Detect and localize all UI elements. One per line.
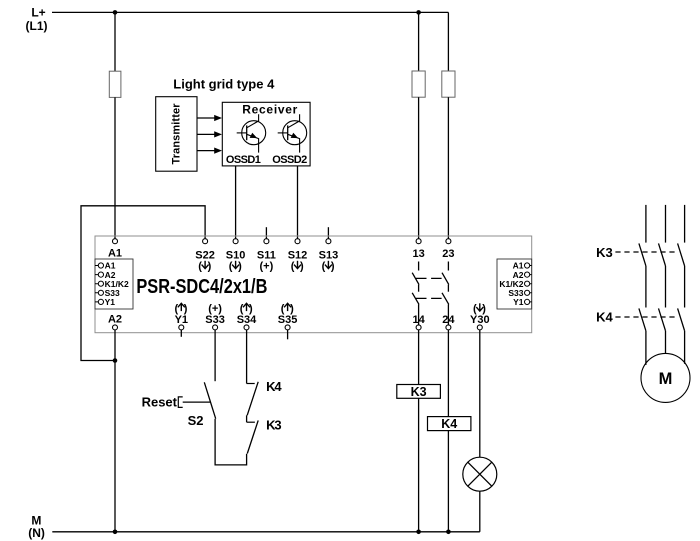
wire phase 1 mid [645, 266, 647, 308]
contact K4 aux blade [247, 382, 258, 416]
wire A1 column upper [114, 12, 116, 71]
wire 13 column lower [418, 97, 420, 239]
transistor Q1 OSSD1 [237, 114, 266, 152]
fuse F1 [109, 71, 121, 97]
node L+ (L1) label [26, 6, 48, 34]
terminal A2 [108, 313, 122, 330]
svg-text:L+: L+ [31, 6, 45, 20]
svg-text:Y1: Y1 [175, 314, 188, 326]
wire stub below S35 [287, 330, 289, 339]
wire OSSD1 output to S10 [235, 166, 237, 239]
svg-text:Transmitter: Transmitter [171, 103, 183, 165]
node junction dot A2/M rail [113, 530, 118, 535]
node junction dot on L+ rail at 13 column [416, 10, 421, 15]
pushbutton S2 actuator link [183, 401, 211, 403]
svg-text:K3: K3 [411, 385, 427, 399]
pushbutton S2 Reset blade [204, 382, 215, 418]
svg-text:A2: A2 [108, 313, 122, 325]
contact K3 aux blade [247, 420, 258, 453]
terminal S35 [278, 303, 298, 330]
svg-text:K4: K4 [266, 379, 282, 394]
wire stub above S13 [327, 227, 329, 239]
svg-text:): ) [331, 260, 335, 272]
wire L+ top rail [52, 11, 448, 13]
terminal 23 [442, 239, 454, 260]
internal safety contact K1/K2 path 23-24 [442, 262, 449, 325]
terminal S22 [195, 239, 215, 273]
fuse F2 [412, 71, 425, 97]
transmitter box [156, 97, 197, 172]
svg-text:): ) [300, 260, 304, 272]
wire phase 3 top [684, 205, 686, 243]
terminal legend box left [95, 259, 133, 309]
svg-text:(: ( [291, 260, 295, 272]
svg-text:Y1: Y1 [105, 297, 116, 307]
terminal S11 [257, 239, 276, 273]
svg-text:Y1: Y1 [513, 297, 524, 307]
wire 24 down to coil K4 [447, 330, 449, 417]
svg-text:): ) [238, 260, 242, 272]
wire phase 3 mid [684, 266, 686, 308]
svg-text:S35: S35 [278, 314, 298, 326]
wire 23 column upper [447, 12, 449, 71]
lamp H1 [463, 457, 497, 491]
svg-text:A1: A1 [108, 248, 122, 260]
mechanical link dashed upper [416, 277, 446, 279]
svg-text:S2: S2 [188, 413, 204, 428]
svg-text:PSR-SDC4/2x1/B: PSR-SDC4/2x1/B [136, 276, 267, 298]
transistor Q2 OSSD2 [278, 114, 307, 152]
svg-text:(: ( [198, 260, 202, 272]
svg-text:(L1): (L1) [26, 19, 48, 33]
svg-text:24: 24 [442, 314, 455, 326]
terminal 14 [412, 314, 425, 330]
wire 13 column upper [418, 12, 420, 71]
svg-text:Y30: Y30 [470, 314, 490, 326]
contact K3 aux tick [247, 421, 255, 423]
pushbutton S2 actuator bracket [178, 397, 182, 408]
wire phase 2 mid [665, 266, 667, 308]
wire 14 down to coil K3 [418, 330, 420, 385]
wire S22 bypass to A2 node [81, 206, 205, 361]
node junction dot bypass/A2 [113, 358, 118, 363]
wire light beam arrow 2 [197, 131, 222, 137]
node junction dot K3/M rail [416, 530, 421, 535]
node M (N) label [28, 514, 45, 541]
coil K4 [428, 417, 471, 432]
svg-text:(N): (N) [28, 526, 45, 540]
svg-text:13: 13 [412, 248, 424, 260]
svg-text:S34: S34 [237, 314, 257, 326]
svg-text:K4: K4 [596, 310, 613, 325]
terminal S13 [319, 239, 339, 273]
contactor K3 main contacts [615, 243, 684, 266]
svg-text:M: M [659, 370, 673, 388]
wire phase 3 to motor [684, 331, 686, 364]
wire S2 bottom loop [215, 419, 247, 465]
terminal S33 [205, 303, 225, 330]
svg-text:S33: S33 [205, 314, 225, 326]
svg-text:Reset: Reset [142, 395, 178, 410]
wire phase 1 top [645, 205, 647, 243]
svg-text:Receiver: Receiver [242, 103, 297, 117]
motor M1 [641, 353, 690, 402]
coil K3 [397, 385, 441, 400]
svg-text:K3: K3 [266, 418, 282, 433]
mechanical link dashed lower [416, 297, 446, 299]
svg-text:OSSD2: OSSD2 [272, 154, 307, 166]
contact K4 aux tick [247, 383, 255, 385]
wire coil K4 to M rail [447, 431, 449, 532]
wire A2 column to M rail [114, 330, 116, 532]
node junction dot K4/M rail [446, 530, 451, 535]
wire 23 column lower [447, 97, 449, 239]
wire light beam arrow 3 [197, 148, 222, 154]
wire OSSD2 output to S12 [297, 166, 299, 239]
svg-text:OSSD1: OSSD1 [226, 154, 261, 166]
node junction dot on L+ rail at A1 column [113, 10, 118, 15]
contactor K4 main contacts [615, 308, 684, 330]
wire S33 down [214, 330, 216, 381]
svg-text:): ) [208, 260, 212, 272]
terminal S34 [237, 303, 257, 330]
svg-text:Light grid type 4: Light grid type 4 [173, 77, 275, 92]
wire phase 2 top [665, 205, 667, 243]
wire stub above S11 [265, 227, 267, 239]
wire lamp to M rail [479, 491, 481, 532]
wire stub below Y1 [180, 330, 182, 337]
terminal 24 [442, 314, 455, 330]
receiver box [222, 102, 310, 166]
terminal Y1 [175, 303, 189, 330]
terminal legend box right [497, 259, 532, 309]
wire phase 1 to motor [645, 331, 647, 365]
terminal S12 [288, 239, 308, 273]
fuse F3 [442, 71, 455, 97]
terminal S10 [226, 239, 246, 273]
safety relay U1 PSR-SDC4/2x1/B body [95, 236, 532, 333]
internal safety contact K1/K2 path 13-14 [412, 262, 419, 325]
wire coil K3 to M rail [418, 398, 420, 532]
svg-text:(: ( [322, 260, 326, 272]
svg-text:K4: K4 [441, 417, 457, 431]
wire M rail [52, 531, 480, 533]
wire Y30 down to lamp [479, 330, 481, 457]
svg-text:(+): (+) [260, 260, 274, 272]
svg-text:K3: K3 [596, 245, 613, 260]
svg-text:23: 23 [442, 248, 454, 260]
terminal Y30 [470, 303, 490, 330]
wire A1 column lower [114, 97, 116, 238]
wire S34 down to K4 aux [246, 330, 248, 384]
terminal A1 [108, 239, 122, 260]
wire light beam arrow 1 [197, 115, 222, 121]
svg-text:14: 14 [412, 314, 425, 326]
terminal 13 [412, 239, 424, 260]
wire phase 2 to motor [665, 331, 667, 354]
wire between aux contacts [246, 415, 248, 422]
svg-text:(: ( [229, 260, 233, 272]
